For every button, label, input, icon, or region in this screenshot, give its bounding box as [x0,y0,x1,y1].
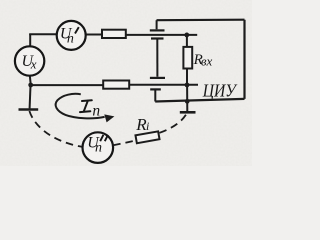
node: junction Hi/Rvx [184,33,189,38]
capacitor chain stub from top frame [156,20,158,29]
wire: Rvx bottom to Lo junction [186,68,188,84]
svg-text:п: п [92,102,100,119]
current arrow In (interference current loop) [56,94,105,119]
svg-text:ЦИУ: ЦИУ [202,80,238,100]
dashed wire: left tick to Un'' [29,111,82,147]
node: junction shield bottom [185,99,190,104]
capacitor plate B [151,37,164,39]
wire: R1 right to CIU input (Hi) [126,34,198,36]
wire: left vertical down to tick [29,86,32,109]
dashed wire: Un'' to Ri [113,141,136,146]
resistor Rvx (input resistance, vertical) [183,47,192,69]
capacitor plate C [150,77,165,79]
label In: letter I drawn as strokes [80,100,92,112]
wire: Lo junction down through frame to tick [186,85,188,111]
dashed wire: Ri to right tick [160,114,187,133]
resistor Ri (in dashed path, tilted) [135,131,159,143]
resistor R1 (upper line) [102,30,126,38]
wire: R2 right to CIU (Lo) [129,84,198,86]
resistor R2 (lower line) [103,81,129,89]
svg-text:i: i [146,119,149,133]
node: junction Lo/Rvx [185,83,190,88]
shield frame right line [243,20,245,99]
capacitor plate A [150,29,165,31]
wire: link between capacitors [156,39,158,77]
left earth tick [19,108,39,111]
right earth tick [180,111,196,114]
svg-text:x: x [30,56,37,71]
wire: corner to Un' left [29,33,57,35]
shield frame top line [157,19,245,22]
wire: Lo from Ux junction to resistor R2 [31,84,104,86]
node: junction under Ux [28,83,33,88]
svg-text:п: п [95,141,102,156]
source Un' (normal-mode interference) [57,21,86,50]
shield frame bottom line [155,99,244,102]
wire: Ux bottom stub [29,76,32,84]
wire: stub from plate D to bottom frame [154,89,156,101]
source Un'' (common-mode interference) [83,132,114,163]
svg-text:вх: вх [201,53,213,68]
capacitor plate D [150,88,161,90]
wire: Un' right to resistor R1 [86,34,103,36]
arrowhead of In [104,114,114,122]
wire: Hi junction down to Rvx [186,35,188,47]
svg-text:п: п [67,32,74,47]
source Ux [15,46,44,75]
wire: Ux top stub to corner [29,34,31,46]
